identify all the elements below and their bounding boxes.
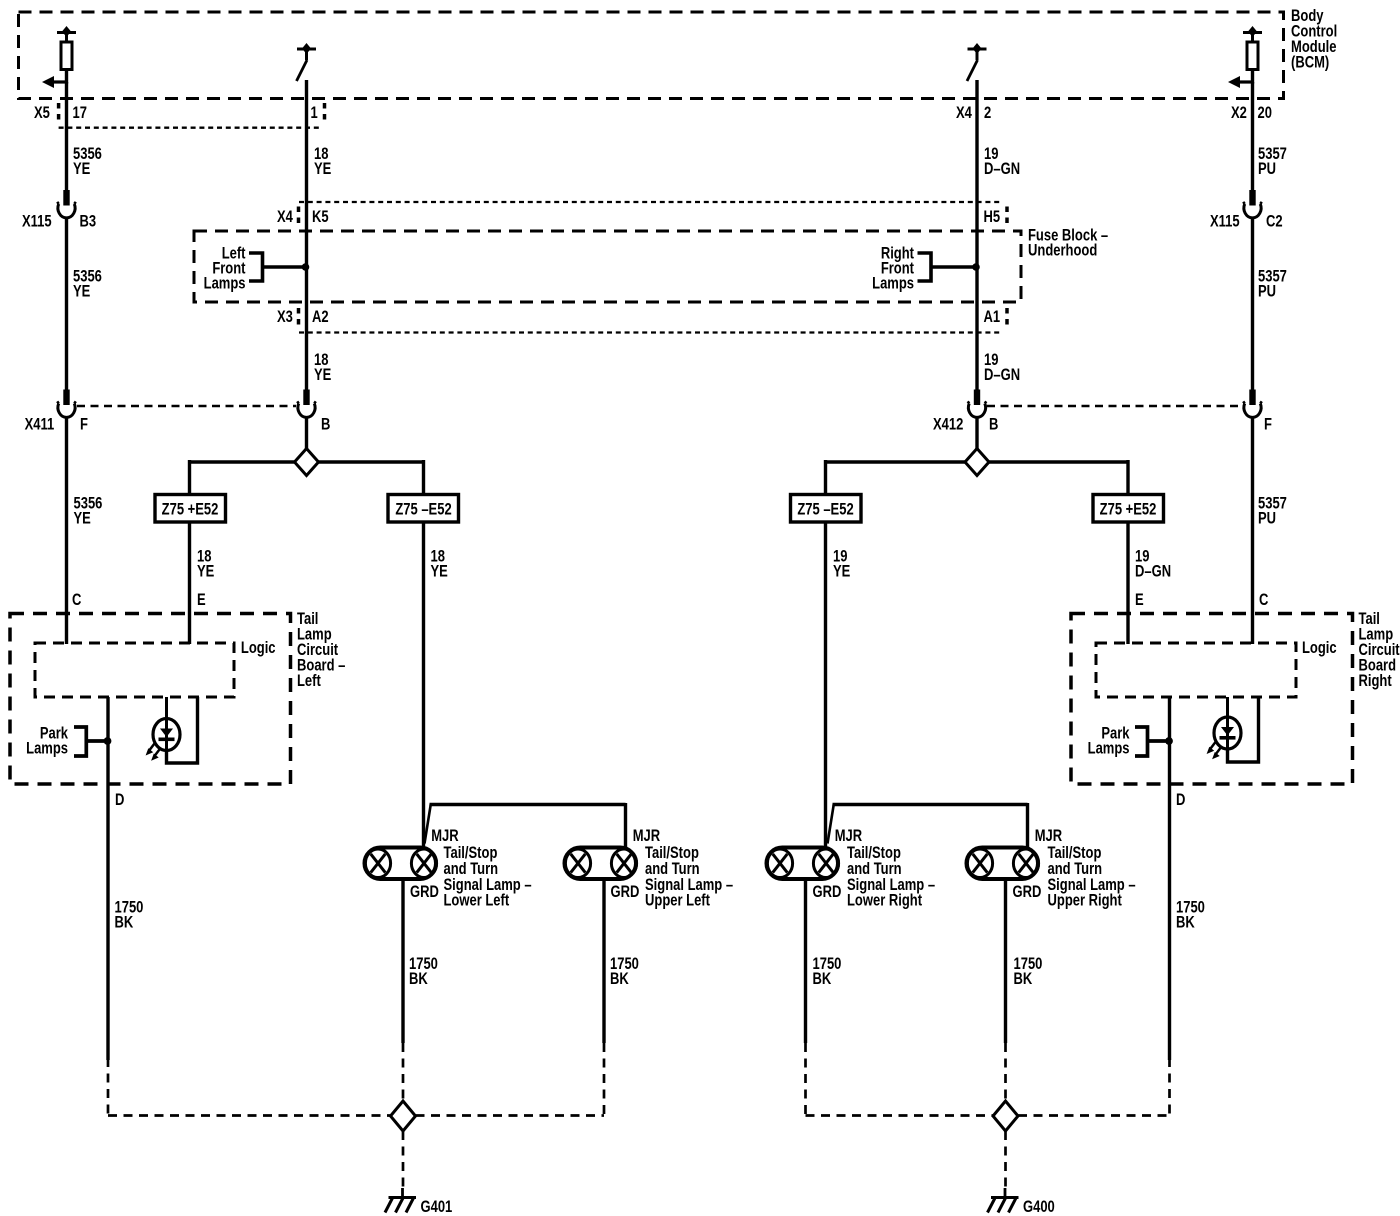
splice pack Z75 +E52 (left) xyxy=(155,495,226,523)
splice S401 xyxy=(391,1101,416,1131)
wire: splice horizontal (left group) xyxy=(190,460,424,463)
connector row X5: pins 17 and 1 xyxy=(59,103,325,128)
svg-text:(BCM): (BCM) xyxy=(1291,54,1329,72)
label: Park Lamps (right) xyxy=(1088,725,1131,758)
wire: Z75 +E52 to board E (left, 18 YE) xyxy=(188,521,191,644)
wire: X115 C2 down (5357 PU) xyxy=(1251,217,1254,390)
dashed ground bus to splice (left) xyxy=(108,1114,604,1117)
label 1750 BK (upper left) xyxy=(610,956,639,989)
svg-text:B3: B3 xyxy=(80,213,97,231)
Body Control Module (BCM) dashed outline xyxy=(19,12,1284,99)
wire: board D right down dashed (1750 BK) xyxy=(1168,1058,1171,1116)
svg-text:MJR: MJR xyxy=(1035,828,1063,846)
svg-text:K5: K5 xyxy=(312,209,329,227)
splice pack Z75 -E52 (left) xyxy=(388,495,459,523)
svg-text:BK: BK xyxy=(813,971,832,989)
connector row X4: pins K5 / H5 (dotted) xyxy=(299,202,1008,227)
right lamp driver switch: BCM internal switch/driver xyxy=(967,43,987,81)
LED indicator (right board) xyxy=(1214,697,1241,749)
svg-text:F: F xyxy=(80,416,88,434)
Tail Lamp Circuit Board - Right dashed outline xyxy=(1071,614,1353,785)
svg-text:C: C xyxy=(72,592,82,610)
label 1750 BK (lower right) xyxy=(813,956,842,989)
svg-text:17: 17 xyxy=(73,105,87,123)
svg-text:BK: BK xyxy=(610,971,629,989)
splice pack Z75 -E52 (right) xyxy=(791,495,862,523)
svg-text:Right: Right xyxy=(1359,673,1392,691)
right fuse element: BCM internal fuse element xyxy=(1228,26,1262,88)
logic module (right board) dashed box xyxy=(1096,643,1296,697)
wire: Z75 +E52 to board E (right, 19 D-GN) xyxy=(1126,521,1129,644)
svg-text:YE: YE xyxy=(73,283,90,301)
svg-text:MJR: MJR xyxy=(835,828,863,846)
svg-text:B: B xyxy=(321,416,330,434)
svg-text:Z75 +E52: Z75 +E52 xyxy=(162,501,219,519)
svg-text:X115: X115 xyxy=(22,213,52,231)
left lamp driver switch: BCM internal switch/driver xyxy=(297,43,317,81)
label 19 D-GN (4) xyxy=(1135,548,1171,581)
label: Tail Lamp Circuit Board - Left xyxy=(297,611,345,691)
wire: lamp lower-left GRD down (1750 BK) xyxy=(401,879,404,1043)
label: Park Lamps (left) xyxy=(26,725,69,758)
wire: lamp lower-right GRD down (1750 BK) xyxy=(804,879,807,1043)
LED emission arrows (left) xyxy=(146,744,160,761)
wire: X412 F to board C (5357 PU) xyxy=(1251,417,1254,644)
label 19 YE xyxy=(833,548,850,581)
wire: splice to ground G401 (dashed) xyxy=(402,1131,405,1188)
svg-text:YE: YE xyxy=(74,510,91,528)
svg-text:X412: X412 xyxy=(933,416,963,434)
LED indicator (left board) xyxy=(153,697,180,751)
label: Fuse Block - Underhood xyxy=(1028,227,1108,260)
svg-text:D–GN: D–GN xyxy=(1135,563,1171,581)
wire: BCM X2-20 to X115 C2 (5357 PU) xyxy=(1251,82,1254,191)
Left Front Lamps tap bracket xyxy=(249,253,303,281)
wire: X411 B to splice diamond xyxy=(305,417,308,451)
dashed ground bus to splice (right) xyxy=(806,1114,1170,1117)
svg-text:F: F xyxy=(1264,416,1272,434)
wire: BCM X4-1 to fuse block (18 YE) xyxy=(305,80,308,390)
svg-text:D: D xyxy=(115,792,124,810)
label: Tail Lamp Circuit Board - Right xyxy=(1359,611,1400,691)
svg-text:X2: X2 xyxy=(1231,105,1247,123)
label 18 YE xyxy=(314,146,331,179)
svg-text:D–GN: D–GN xyxy=(984,367,1020,385)
wire: logic to board pin D (right) xyxy=(1168,697,1171,1060)
svg-text:H5: H5 xyxy=(984,209,1001,227)
left fuse element: BCM internal fuse element xyxy=(42,26,76,88)
svg-text:D: D xyxy=(1176,792,1185,810)
connector row X3: pins A2 / A1 (dotted) xyxy=(299,308,1008,333)
wire: splice horizontal (right group) xyxy=(826,460,1129,463)
label 5357 PU (2) xyxy=(1258,268,1287,301)
junction dot (right front lamps) xyxy=(972,263,980,271)
svg-text:G400: G400 xyxy=(1023,1199,1055,1216)
label 1750 BK (board D left) xyxy=(115,899,144,932)
wire: splice to ground G400 (dashed) xyxy=(1004,1131,1007,1188)
connector X115 pin C2 xyxy=(1243,190,1262,218)
svg-text:20: 20 xyxy=(1258,105,1272,123)
label 18 YE (3) xyxy=(314,352,331,385)
wire: board D left down dashed (1750 BK) xyxy=(107,1058,110,1116)
connector X411 pin F xyxy=(57,390,76,418)
svg-text:YE: YE xyxy=(73,161,90,179)
svg-text:PU: PU xyxy=(1258,283,1276,301)
splice (right) xyxy=(965,449,989,476)
label 18 YE (4) xyxy=(197,548,214,581)
svg-text:Z75 +E52: Z75 +E52 xyxy=(1100,501,1157,519)
svg-text:GRD: GRD xyxy=(410,884,439,902)
label 5356 YE (2) xyxy=(73,268,102,301)
svg-text:A1: A1 xyxy=(984,309,1001,327)
wire: branch to upper-right lamp xyxy=(828,803,1028,849)
label 1750 BK (lower left) xyxy=(409,956,438,989)
svg-text:B: B xyxy=(989,416,998,434)
label 19 D-GN (3) xyxy=(984,352,1020,385)
svg-text:Lower Left: Lower Left xyxy=(444,892,510,910)
svg-text:D–GN: D–GN xyxy=(984,161,1020,179)
LED emission arrows (right) xyxy=(1207,742,1221,759)
wire: X411 F to board C (5356 YE) xyxy=(65,417,68,644)
svg-text:Logic: Logic xyxy=(241,640,276,658)
wire: down to Z75 +E52 (right) xyxy=(1126,460,1129,496)
svg-text:YE: YE xyxy=(197,563,214,581)
wire: down to Z75 -E52 (right) xyxy=(824,460,827,496)
svg-text:GRD: GRD xyxy=(1013,884,1042,902)
svg-text:X3: X3 xyxy=(277,309,293,327)
svg-text:G401: G401 xyxy=(421,1199,453,1216)
svg-text:A2: A2 xyxy=(312,309,329,327)
svg-text:C: C xyxy=(1259,592,1269,610)
svg-text:X115: X115 xyxy=(1210,213,1240,231)
svg-text:YE: YE xyxy=(314,367,331,385)
svg-text:BK: BK xyxy=(115,914,134,932)
label 5357 PU (3) xyxy=(1258,495,1287,528)
svg-text:1: 1 xyxy=(311,105,318,123)
junction dot (left front lamps) xyxy=(302,263,310,271)
connector X412 pin B xyxy=(968,390,987,418)
svg-text:X411: X411 xyxy=(25,416,55,434)
label: Tail/Stop and Turn Signal Lamp - Lower Left xyxy=(444,845,532,910)
svg-text:X5: X5 xyxy=(34,105,50,123)
svg-text:Lower Right: Lower Right xyxy=(847,892,922,910)
svg-text:C2: C2 xyxy=(1266,213,1283,231)
lamp upper right: tail/stop & turn signal bulb xyxy=(967,848,1039,880)
svg-text:Left: Left xyxy=(297,673,321,691)
svg-text:PU: PU xyxy=(1258,161,1276,179)
svg-text:YE: YE xyxy=(314,161,331,179)
svg-text:E: E xyxy=(197,592,206,610)
svg-text:MJR: MJR xyxy=(633,828,661,846)
lamp lower left: tail/stop & turn signal bulb xyxy=(365,848,437,880)
label: Body Control Module (BCM) xyxy=(1291,8,1337,72)
svg-text:Upper Left: Upper Left xyxy=(645,892,710,910)
wire: LED loop to logic (right) xyxy=(1228,697,1259,762)
wire: X412 B to splice diamond xyxy=(975,417,978,451)
wire: down to Z75 -E52 (left) xyxy=(422,460,425,496)
label: Left Front Lamps xyxy=(204,245,246,293)
svg-text:GRD: GRD xyxy=(813,884,842,902)
label 1750 BK (board D right) xyxy=(1176,899,1205,932)
ground G401 xyxy=(385,1188,416,1213)
Right Front Lamps tap bracket xyxy=(918,253,974,281)
svg-text:E: E xyxy=(1135,592,1144,610)
svg-text:Lamps: Lamps xyxy=(1088,740,1130,758)
wire: Z75 -E52 to lamps (right, 19 YE) xyxy=(824,521,827,849)
svg-text:Lamps: Lamps xyxy=(872,275,914,293)
svg-text:Z75 –E52: Z75 –E52 xyxy=(395,501,451,519)
logic module (left board) dashed box xyxy=(35,643,234,697)
lamp lower right: tail/stop & turn signal bulb xyxy=(767,848,839,880)
splice S400 xyxy=(993,1101,1018,1131)
wire: logic to board pin D (left) xyxy=(106,697,109,1060)
lamp upper left: tail/stop & turn signal bulb xyxy=(565,848,637,880)
label 5357 PU xyxy=(1258,146,1287,179)
svg-text:Lamps: Lamps xyxy=(26,740,68,758)
svg-text:BK: BK xyxy=(1014,971,1033,989)
dashed connector link X411 xyxy=(77,405,296,408)
label: Right Front Lamps xyxy=(872,245,914,293)
svg-text:BK: BK xyxy=(409,971,428,989)
ground G400 xyxy=(988,1188,1019,1213)
Park Lamps tap bracket (left board) xyxy=(74,727,104,756)
svg-text:Underhood: Underhood xyxy=(1028,242,1097,260)
wire: BCM X4-2 to fuse block (19 D-GN) xyxy=(975,80,978,390)
wire: lamp upper-right GRD down (1750 BK) xyxy=(1004,879,1007,1043)
svg-text:BK: BK xyxy=(1176,914,1195,932)
connector X411 pin B xyxy=(297,390,316,418)
wire: down to Z75 +E52 (left) xyxy=(188,460,191,496)
svg-text:X4: X4 xyxy=(956,105,973,123)
wire: X115 B3 to X411 F (5356 YE) xyxy=(65,217,68,390)
junction dot (park lamps right) xyxy=(1165,737,1173,745)
Tail Lamp Circuit Board - Left dashed outline xyxy=(10,614,291,785)
wire: BCM X5-17 to X115 B3 (5356 YE) xyxy=(65,82,68,191)
connector X115 pin B3 xyxy=(57,190,76,218)
svg-text:YE: YE xyxy=(833,563,850,581)
label 19 D-GN xyxy=(984,146,1020,179)
dashed connector link X412 xyxy=(987,405,1242,408)
svg-text:Logic: Logic xyxy=(1302,640,1337,658)
wire: branch to upper-left lamp xyxy=(425,803,626,849)
wire: LED loop to logic (left) xyxy=(167,697,198,763)
svg-text:X4: X4 xyxy=(277,209,294,227)
label 5356 YE (3) xyxy=(74,495,103,528)
junction dot (park lamps left) xyxy=(104,737,112,745)
Park Lamps tap bracket (right board) xyxy=(1135,727,1166,756)
label 1750 BK (upper right) xyxy=(1014,956,1043,989)
wire: Z75 -E52 to lamp lower-left MJR (18 YE) xyxy=(422,521,425,849)
label: Tail/Stop and Turn Signal Lamp - Lower Right xyxy=(847,845,935,910)
splice pack Z75 +E52 (right) xyxy=(1093,495,1164,523)
svg-text:Upper Right: Upper Right xyxy=(1048,892,1122,910)
svg-text:Z75 –E52: Z75 –E52 xyxy=(797,501,853,519)
svg-text:Lamps: Lamps xyxy=(204,275,246,293)
svg-text:GRD: GRD xyxy=(611,884,640,902)
connector X412 pin F xyxy=(1243,390,1262,418)
svg-text:YE: YE xyxy=(431,563,448,581)
label 18 YE (5) xyxy=(431,548,448,581)
label 5356 YE xyxy=(73,146,102,179)
splice (left 18 YE) xyxy=(295,449,319,476)
label: Tail/Stop and Turn Signal Lamp - Upper Left xyxy=(645,845,733,910)
wire: lamp upper-left GRD down (1750 BK) xyxy=(602,879,605,1043)
svg-text:MJR: MJR xyxy=(431,828,459,846)
label: Tail/Stop and Turn Signal Lamp - Upper Right xyxy=(1048,845,1136,910)
Fuse Block - Underhood dashed outline xyxy=(194,231,1021,302)
svg-text:PU: PU xyxy=(1258,510,1276,528)
svg-text:2: 2 xyxy=(984,105,991,123)
